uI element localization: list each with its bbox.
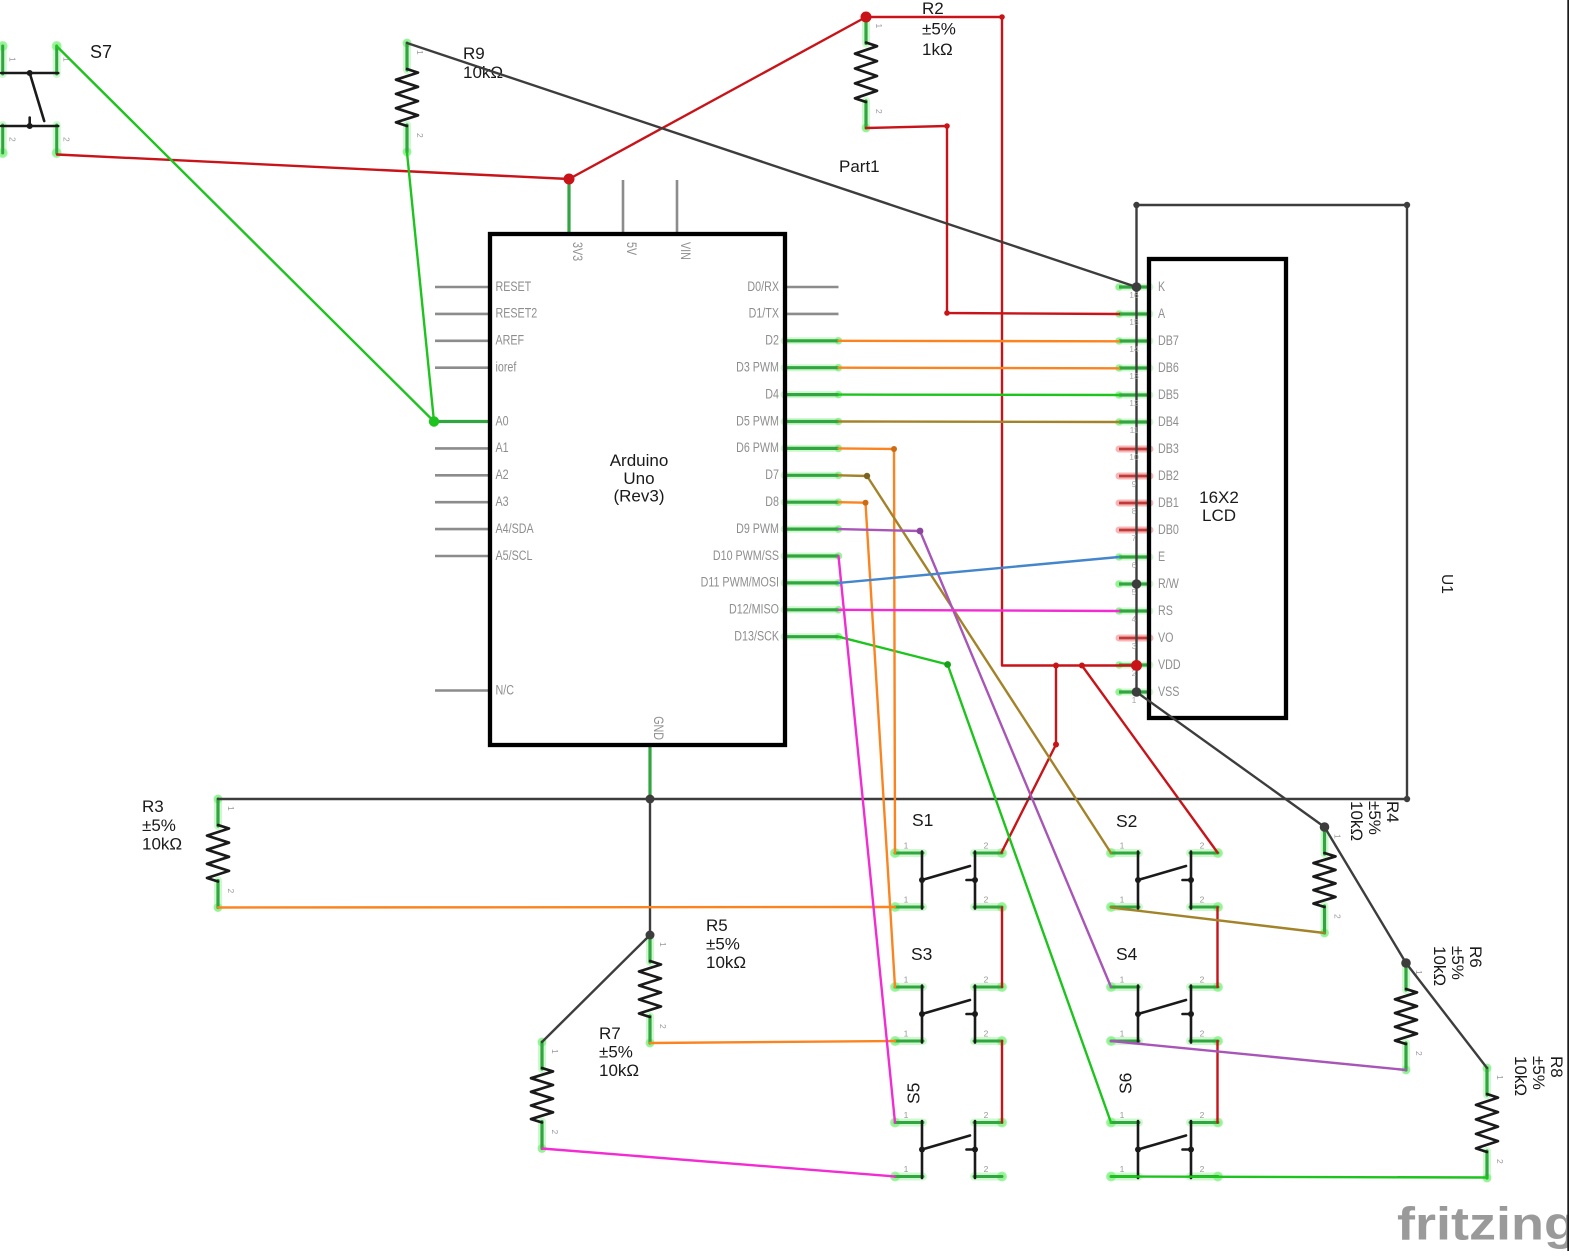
Arduino Uno module body [490,234,785,745]
svg-text:DB2: DB2 [1158,468,1179,483]
wire D8 to S3 pin1 (orange) [839,502,896,987]
svg-text:D7: D7 [765,467,779,482]
bendpoint red R2a [944,123,950,129]
svg-text:16X2: 16X2 [1199,488,1239,507]
svg-text:±5%: ±5% [1448,946,1467,980]
svg-text:11: 11 [1130,425,1139,435]
svg-text:2: 2 [984,975,989,985]
wire U1 frame top edge (dark) [1137,204,1408,206]
svg-text:2: 2 [1333,914,1343,919]
svg-text:D10 PWM/SS: D10 PWM/SS [713,548,779,563]
svg-text:5V: 5V [624,242,639,255]
label R2 value [922,0,956,59]
wire D9 to S4 pin1 (purple) [839,529,1112,987]
svg-text:1: 1 [904,1110,909,1120]
resistor R3 [207,795,236,913]
svg-text:1: 1 [1120,1164,1125,1174]
svg-text:Arduino: Arduino [610,451,669,470]
svg-text:2: 2 [984,841,989,851]
junction GND bus node (dark) [646,795,655,804]
svg-text:S4: S4 [1116,944,1138,964]
label R9 value [463,44,503,82]
svg-text:DB6: DB6 [1158,360,1179,375]
wire D7 to S2 pin1 (olive) [839,475,1112,853]
svg-text:DB5: DB5 [1158,387,1179,402]
label R7 value [599,1024,639,1080]
svg-text:10kΩ: 10kΩ [1347,801,1366,841]
bendpoint red R2b [944,310,950,316]
svg-text:2: 2 [658,1024,668,1029]
wire D3 to LCD DB6 (orange) [839,367,1120,370]
svg-text:R4: R4 [1383,801,1402,823]
wire R6 pin1 to R8 pin1 (dark) [1406,963,1487,1068]
svg-text:R7: R7 [599,1024,621,1043]
svg-text:R8: R8 [1547,1056,1566,1078]
svg-text:1: 1 [904,1164,909,1174]
bendpoint olive D7 [864,473,870,479]
svg-text:1: 1 [904,895,909,905]
svg-text:Uno: Uno [623,469,654,488]
switch S3 [890,975,1007,1047]
switch S2 [1106,841,1223,913]
wire D11 to LCD E (blue) [839,557,1120,583]
svg-text:3V3: 3V3 [570,242,585,261]
svg-text:1: 1 [415,50,425,55]
svg-text:2: 2 [1200,1029,1205,1039]
svg-text:S2: S2 [1116,811,1137,831]
resistor R4 [1314,823,1343,938]
wire D5 to LCD DB4 (olive) [839,420,1120,423]
bendpoint red VDD-b [1079,663,1085,669]
wire S4 pin2 to S6 pin2 (red) [1216,1041,1218,1123]
resistor R5 [639,931,668,1048]
svg-text:6: 6 [1132,560,1137,570]
svg-text:4: 4 [1132,614,1137,624]
bendpoint orange D6 [891,446,897,452]
svg-text:R2: R2 [922,0,944,18]
svg-text:12: 12 [1129,398,1139,408]
svg-text:2: 2 [1414,1051,1424,1056]
svg-text:DB3: DB3 [1158,441,1179,456]
junction LCD K node (dark) [1132,282,1142,292]
wire 3V3 junction to R2 pin1 (red) [569,17,866,179]
svg-text:5: 5 [1132,587,1137,597]
LCD pins [1115,283,1150,696]
svg-text:A1: A1 [496,440,509,455]
svg-text:DB1: DB1 [1158,495,1179,510]
resistor R7 [531,1038,560,1154]
wire S7 pin1 to A0 junction (green) [57,46,435,422]
svg-text:±5%: ±5% [706,935,740,954]
label R6 value [1430,946,1485,986]
junction LCD VDD node (red) [1131,660,1142,671]
svg-text:RESET: RESET [496,279,532,294]
svg-text:1: 1 [1120,841,1125,851]
bendpoint red VDD-a [1053,663,1059,669]
svg-text:9: 9 [1132,479,1137,489]
svg-text:A0: A0 [496,413,509,428]
svg-text:1: 1 [8,57,18,62]
svg-text:D2: D2 [765,333,779,348]
Arduino right pin labels [701,279,780,644]
svg-text:2: 2 [415,133,425,138]
svg-text:1: 1 [1120,975,1125,985]
LCD pin labels [1158,279,1181,699]
svg-text:AREF: AREF [496,333,525,348]
svg-text:16: 16 [1129,290,1139,300]
svg-text:±5%: ±5% [599,1043,633,1062]
wire S1 pin2 to S3 pin2 (red) [1001,908,1003,988]
bendpoint U1 frame bottom-right [1404,796,1410,802]
svg-text:2: 2 [874,109,884,114]
svg-text:10: 10 [1129,452,1139,462]
bendpoint U1 frame top-right [1404,202,1410,208]
wire S3 pin2 to S5 pin2 (red) [1001,1041,1003,1123]
junction R6 pin1 node (dark) [1401,958,1411,968]
svg-text:R9: R9 [463,44,485,63]
svg-text:D3 PWM: D3 PWM [736,360,779,375]
svg-text:D9 PWM: D9 PWM [736,521,779,536]
svg-text:10kΩ: 10kΩ [599,1061,639,1080]
LCD 16X2 module outline [1149,259,1286,718]
bendpoint green D13 [944,661,951,668]
wire GND junction to R5 junction (dark) [649,799,651,935]
svg-text:DB0: DB0 [1158,522,1179,537]
switch S6 [1106,1110,1223,1182]
svg-text:R6: R6 [1466,946,1485,968]
wire S2 pin2 to S4 pin2 (red) [1216,908,1218,988]
svg-text:2: 2 [1200,895,1205,905]
Arduino top pin labels [570,242,693,261]
svg-text:ioref: ioref [496,360,517,375]
svg-text:D8: D8 [765,494,779,509]
junction LCD VSS node (dark) [1132,687,1142,697]
svg-text:(Rev3): (Rev3) [613,487,664,506]
svg-text:DB7: DB7 [1158,333,1179,348]
Arduino pin VIN [676,180,679,236]
Arduino pin 5V [622,180,625,236]
svg-text:S1: S1 [912,810,933,830]
wire VDD bend to S1 pin2 (red) [1002,666,1057,853]
svg-text:S5: S5 [904,1083,924,1104]
svg-text:10kΩ: 10kΩ [1511,1056,1530,1096]
svg-text:±5%: ±5% [142,816,176,835]
LCD pin numbers [1129,290,1139,705]
svg-text:1: 1 [904,975,909,985]
svg-text:2: 2 [984,895,989,905]
junction R5 node (dark) [646,931,655,940]
svg-text:1: 1 [658,942,668,947]
wire S4 pin1 to R6 pin2 (purple) [1111,1041,1406,1070]
svg-text:S6: S6 [1116,1073,1136,1094]
svg-text:1: 1 [904,1029,909,1039]
resistor R2 [855,12,884,133]
svg-text:1: 1 [1132,695,1137,705]
switch S7 [0,41,72,158]
svg-text:2: 2 [1200,975,1205,985]
junction R2 pin1 node (red) [861,12,872,23]
bendpoint red corner [999,14,1005,20]
svg-text:D4: D4 [765,386,779,401]
wire S7 pin2 to 3V3 junction (red) [57,155,569,180]
svg-text:2: 2 [984,1164,989,1174]
svg-text:14: 14 [1129,344,1139,354]
junction 3V3 node (red) [564,174,575,185]
svg-text:D11 PWM/MOSI: D11 PWM/MOSI [701,575,779,590]
Arduino pin GND [648,744,651,799]
label 16X2 LCD [1199,488,1239,525]
wire D2 to LCD DB7 (orange) [839,340,1120,343]
label R8 value [1511,1056,1566,1096]
svg-text:2: 2 [984,1029,989,1039]
svg-text:1: 1 [1120,1110,1125,1120]
svg-text:1: 1 [550,1049,560,1054]
svg-text:1: 1 [1333,834,1343,839]
Arduino pin 3V3 [567,180,570,236]
svg-text:VIN: VIN [678,242,693,260]
svg-text:LCD: LCD [1202,506,1236,525]
wire R3 pin2 to S1 pin1 (orange) [218,906,895,909]
svg-text:VO: VO [1158,630,1174,645]
resistor R6 [1395,959,1424,1075]
svg-text:2: 2 [1200,1110,1205,1120]
wire R9 pin1 to LCD K (dark) [407,43,1137,287]
svg-text:A5/SCL: A5/SCL [496,548,533,563]
Arduino Uno module outline [490,234,785,745]
wire D4 to LCD DB5 (green) [839,393,1120,396]
switch S5 [890,1110,1007,1182]
svg-text:VSS: VSS [1158,684,1179,699]
wire R4 pin1 to R6 pin1 (dark) [1325,827,1407,963]
svg-text:R3: R3 [142,797,164,816]
label R3 value [142,797,182,854]
junction A0 node (green) [429,416,439,426]
svg-text:1kΩ: 1kΩ [922,40,953,59]
svg-text:2: 2 [8,137,18,142]
wire S6 pin1 to R8 pin2 (green) [1111,1177,1487,1178]
svg-text:10kΩ: 10kΩ [142,835,182,854]
wire R2 pin1 to VDD corner (red) [866,17,1137,666]
Arduino right pins D0 D1 (unconnected) [784,287,839,314]
svg-text:1: 1 [1120,895,1125,905]
svg-text:8: 8 [1132,506,1137,516]
Arduino left pin labels [496,279,538,698]
svg-text:±5%: ±5% [1365,801,1384,835]
bendpoint U1 frame top-left [1133,202,1139,208]
label Arduino Uno (Rev3) [610,451,669,506]
svg-text:2: 2 [62,137,72,142]
wire LCD K to R/W to VSS (dark) [1135,287,1137,692]
wire D12 to LCD RS (magenta) [839,610,1120,611]
svg-text:D0/RX: D0/RX [747,279,779,294]
wire D13 to S6 pin1 (green) [839,637,1112,1123]
svg-text:7: 7 [1132,533,1137,543]
svg-text:N/C: N/C [496,682,515,697]
svg-text:Part1: Part1 [839,157,880,176]
svg-text:A4/SDA: A4/SDA [496,521,534,536]
svg-text:A: A [1158,306,1165,321]
Arduino pin A0 (connected) [430,417,492,426]
switch S4 [1106,975,1223,1047]
svg-text:S7: S7 [90,42,112,62]
svg-text:13: 13 [1129,371,1139,381]
svg-text:1: 1 [1120,1029,1125,1039]
svg-text:±5%: ±5% [922,20,956,39]
svg-text:R/W: R/W [1158,576,1179,591]
junction LCD R/W node (dark) [1132,579,1142,589]
junction R4 pin1 node (dark) [1320,822,1330,832]
svg-text:RS: RS [1158,603,1173,618]
svg-text:2: 2 [1132,668,1137,678]
svg-text:K: K [1158,279,1165,294]
Arduino left pins (unconnected) [435,287,491,691]
svg-text:2: 2 [550,1130,560,1135]
svg-text:RESET2: RESET2 [496,306,538,321]
svg-text:D6 PWM: D6 PWM [736,440,779,455]
svg-text:1: 1 [1495,1075,1505,1080]
svg-text:fritzing: fritzing [1397,1198,1569,1250]
svg-text:15: 15 [1129,317,1139,327]
label R4 value [1347,801,1402,841]
svg-text:VDD: VDD [1158,657,1181,672]
LCD 16X2 module body U1 [1149,259,1286,718]
svg-text:S3: S3 [911,944,932,964]
wire U1 frame right edge (dark) [1406,205,1408,799]
wire R9 pin2 to A0 junction (green) [407,153,434,422]
Arduino right pins D2-D13 (connected) [784,337,842,641]
wire R5 pin2 to S3 pin1 (orange) [650,1041,895,1043]
wire D10 to S5 pin1 (magenta) [839,556,896,1123]
wire ground bus to R3 pin1 (dark) [218,798,1407,800]
wire R5 junction to R7 pin1 (dark) [542,935,650,1042]
wire LCD VSS to R4 pin1 (dark) [1137,692,1325,827]
svg-text:D13/SCK: D13/SCK [734,629,779,644]
svg-text:GND: GND [651,716,666,740]
svg-text:1: 1 [904,841,909,851]
svg-text:D5 PWM: D5 PWM [736,413,779,428]
bendpoint purple D9 [917,528,924,535]
svg-text:DB4: DB4 [1158,414,1179,429]
svg-text:10kΩ: 10kΩ [706,953,746,972]
wire D6 to S1 pin1 (orange) [839,448,896,853]
svg-text:2: 2 [984,1110,989,1120]
svg-text:1: 1 [874,24,884,29]
svg-text:±5%: ±5% [1529,1056,1548,1090]
svg-text:A2: A2 [496,467,509,482]
resistor R9 [396,39,425,157]
label R5 value [706,916,746,972]
bendpoint red S1 branch [1053,742,1059,748]
svg-text:2: 2 [1495,1159,1505,1164]
svg-text:2: 2 [1200,1164,1205,1174]
wire R2 pin2 to LCD A (red) [866,126,1119,314]
wire S2 pin1 to R4 pin2 (olive) [1111,908,1325,934]
wire LCD K up to U1 frame top (dark) [1135,205,1137,287]
bendpoint orange D8 [863,500,869,506]
svg-text:D12/MISO: D12/MISO [729,602,779,617]
svg-text:2: 2 [1200,841,1205,851]
svg-text:1: 1 [226,806,236,811]
svg-text:2: 2 [226,889,236,894]
svg-text:10kΩ: 10kΩ [1430,946,1449,986]
svg-text:E: E [1158,549,1165,564]
switch S1 [890,841,1007,913]
svg-text:A3: A3 [496,494,509,509]
svg-text:U1: U1 [1438,574,1455,594]
svg-text:R5: R5 [706,916,728,935]
svg-text:3: 3 [1132,641,1137,651]
resistor R8 [1476,1064,1505,1183]
wire VDD bend to S2 pin2 (red) [1082,666,1218,853]
svg-text:D1/TX: D1/TX [749,306,779,321]
wire R7 pin2 to S5 pin1 (magenta) [542,1149,895,1177]
